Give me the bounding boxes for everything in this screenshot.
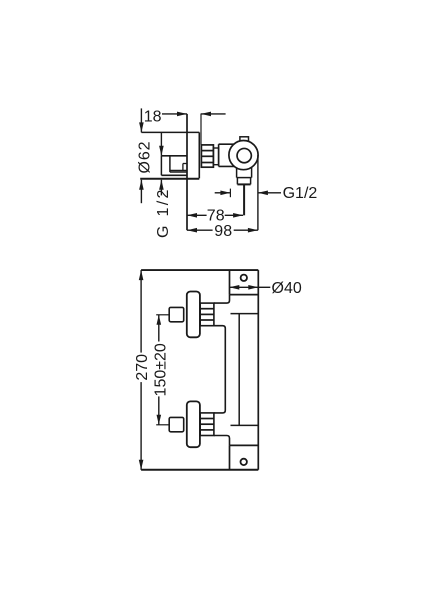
svg-text:18: 18 [144, 108, 162, 125]
svg-text:98: 98 [214, 223, 232, 240]
svg-text:Ø40: Ø40 [272, 280, 302, 297]
svg-text:270: 270 [134, 354, 151, 381]
svg-text:150±20: 150±20 [152, 343, 169, 396]
svg-text:G 1/2: G 1/2 [155, 189, 172, 238]
svg-text:Ø62: Ø62 [136, 141, 153, 173]
svg-text:G1/2: G1/2 [283, 185, 318, 202]
